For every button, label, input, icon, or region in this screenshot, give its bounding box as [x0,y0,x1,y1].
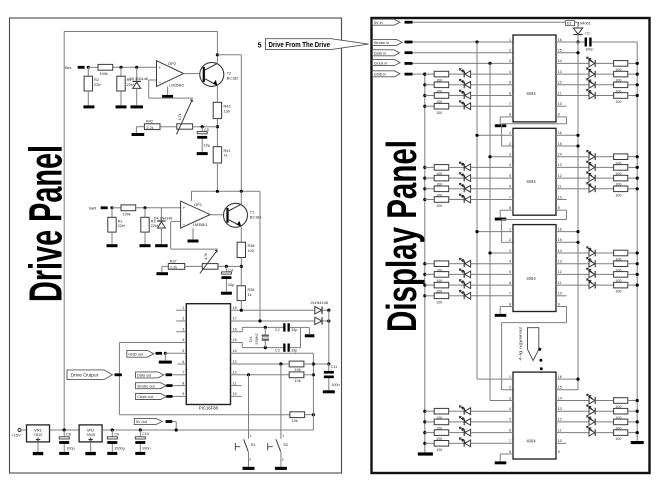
node T1 collector junction [240,190,243,193]
resistor 100 right bank4 row3 [614,419,628,425]
wire LED to U4 pin4 [471,410,513,412]
node rail junction bank4 row3 [636,420,639,423]
U1 pin 9 label [558,113,560,117]
LED right bank1 row4 [589,92,595,99]
svg-text:4,7k: 4,7k [204,253,208,260]
wire resistor to LED bank3 row2 [449,273,465,275]
wire +15V to VR1 [21,429,27,431]
wire +V left rail [63,32,65,431]
svg-text:3: 3 [509,249,511,253]
svg-text:4094: 4094 [526,439,536,444]
svg-text:18: 18 [233,306,237,310]
resistor 100 bank3 row4 [434,293,449,299]
svg-text:100: 100 [615,290,621,294]
wire Data out stub [166,373,173,376]
wire resistor to rail right bank2 row2 [628,166,637,168]
pin 8 label [182,381,184,385]
svg-text:22k*: 22k* [94,83,102,87]
svg-text:20MHZ: 20MHZ [255,333,259,344]
ground S2 [275,467,287,470]
ground C10 [135,452,145,455]
svg-text:1: 1 [509,38,511,42]
wire U1 pin8 to ground [500,116,513,118]
connector 5V in [372,19,400,25]
svg-text:7805: 7805 [86,432,95,437]
svg-text:4,7k: 4,7k [178,113,182,120]
svg-text:S2: S2 [283,442,288,447]
LED bank1 row1 [463,71,465,78]
node 10k 5V junction [312,413,315,416]
svg-text:6: 6 [509,91,511,95]
resistor 100 bank1 row2 [434,82,449,88]
wire feed to resistor bank1 row3 [425,95,434,97]
svg-text:100: 100 [615,100,621,104]
diode D4 1N4148 [160,208,162,221]
ground C8 [59,452,69,455]
wire T1 supply rail [192,190,261,192]
wire T2 collector drop [216,32,218,63]
svg-text:100: 100 [436,111,442,115]
crystal Cr1 20MHZ [264,326,267,329]
resistor 100 bank4 row3 [434,430,449,436]
ground right rail [631,441,644,444]
wire strobe to U2 pin1 [477,134,513,136]
svg-text:15: 15 [558,49,562,53]
LED bank4 row1 [463,408,465,415]
svg-text:1: 1 [250,434,252,438]
LED right bank4 row2 [589,408,595,415]
connector Clock in [372,60,400,66]
wire resistor to rail right bank3 row2 [628,263,637,265]
wire S2 to ground [280,452,282,467]
resistor 100 bank1 row3 [434,93,449,99]
svg-text:_: _ [182,220,186,225]
LED right bank1 row2 [589,71,595,78]
svg-text:4094: 4094 [526,276,536,281]
wire 5V bus [577,42,579,390]
node SaR junction [110,206,113,209]
ground R4 [116,105,127,108]
resistor R1 [111,208,113,218]
capacitor C9 1000u [111,430,113,437]
IC 4094 U1 [513,35,556,122]
svg-text:2,2k: 2,2k [146,126,153,130]
IC 4094 U3 [513,225,556,312]
svg-text:12: 12 [558,174,562,178]
wire resistor to rail right bank4 row4 [628,432,637,434]
U4 pin 13 label [558,407,562,411]
wire S1 to ground [248,452,250,467]
U1 pin 10 label [558,102,562,106]
node rail junction bank3 row2 [636,262,639,265]
node strobe junction U2 [475,134,478,137]
U3 pin 6 label [509,281,511,285]
wire feed to resistor bank2 row2 [425,177,434,179]
node S2 junction [279,362,282,365]
svg-text:1k: 1k [248,293,252,297]
U2 pin 7 label [509,195,511,199]
svg-text:7: 7 [509,195,511,199]
wire resistor to rail right bank2 row3 [628,177,637,179]
wire pin15 to crystal loop [231,342,243,344]
connector Strobe out [136,383,167,389]
trimmer P2 4,7k [177,124,193,129]
svg-text:10k: 10k [295,379,301,383]
wire U3 pin8 to ground [500,306,513,308]
U4 pin 11 label [558,428,562,432]
wire OP1 output to T1 base [210,214,227,216]
wire feed to resistor bank4 row3 [425,432,434,434]
LED right bank3 row2 [589,260,595,267]
svg-text:12: 12 [233,371,237,375]
wire 5V out stub [166,420,173,423]
svg-text:11: 11 [558,281,562,285]
wire U4 pin12 to LED [556,421,589,423]
svg-text:BC182: BC182 [250,215,262,219]
node rail junction bank2 row4 [636,187,639,190]
node rail junction bank4 row1 [636,399,639,402]
node R4 junction [119,66,122,69]
pin 7 label [182,371,184,375]
wire LED to U2 pin5 [471,177,513,179]
svg-text:+: + [183,206,186,211]
wire VR1 to ground [37,442,39,452]
U1 pin 11 label [558,91,562,95]
svg-text:C3: C3 [275,348,280,352]
wire U2 pin16 to 5V [556,134,578,136]
node C9 junction [111,428,114,431]
U3 pin 9 label [558,302,560,306]
pin 9 label [182,392,184,396]
U4 pin 9 label [558,450,560,454]
LED bank2 row2 [463,175,465,182]
svg-text:12: 12 [558,81,562,85]
wire led feed bus [424,74,426,452]
U4 pin 7 label [509,439,511,443]
drive panel border [10,18,342,473]
node C8 junction [63,428,66,431]
ground U3 [495,314,507,317]
ground R37 [162,265,168,267]
wire OP2 feedback [149,79,157,81]
node led feed top [423,73,426,76]
wire U4 pin8 to ground [500,453,513,455]
svg-text:13: 13 [558,70,562,74]
U4 pin 2 label [509,386,511,390]
wire U1 pin14 to LED [556,62,589,64]
node rail junction bank1 row1 [636,62,639,65]
svg-text:22k*: 22k* [127,83,135,87]
U3 pin 2 label [509,238,511,242]
svg-text:Display Panel: Display Panel [378,140,425,332]
resistor R35 [237,286,245,301]
node SaR input label [89,206,97,211]
svg-text:2x1N4148: 2x1N4148 [311,301,328,305]
LED bank2 row1 [463,164,465,171]
svg-text:5: 5 [509,174,511,178]
svg-text:C8: C8 [66,433,71,437]
wire LED to U1 pin4 [471,73,513,75]
node bank3 feed row1 [423,262,426,265]
wire R42 to trimmer [160,126,177,128]
node C11 junction [327,362,330,365]
wire trimmer to node [193,126,218,128]
wire to R36 [112,207,121,209]
ground R42 [136,126,144,128]
node bank3 feed row3 [423,284,426,287]
connector Clock out [136,394,167,400]
resistor 100 right bank1 row1 [614,61,628,67]
node clock junction U3 [488,251,491,254]
pin 17 label [233,317,237,321]
wire R41 to T1 rail [216,163,218,191]
wire OP2 output to T2 base [184,73,204,75]
pin 16 label [233,327,237,331]
resistor R38 [237,242,245,257]
resistor 100 right bank3 row2 [614,261,628,267]
U4 pin 4 label [509,407,511,411]
resistor 100 bank3 row3 [434,282,449,288]
svg-text:2: 2 [509,386,511,390]
wire 5V in stub [405,21,413,24]
wire crystal caps common [300,327,302,347]
ground GND out [164,353,166,360]
svg-text:22k*: 22k* [118,224,126,228]
svg-text:Strobe in: Strobe in [374,41,389,45]
wire LED to U3 pin5 [471,273,513,275]
ground C4 [221,292,232,295]
resistor R3 [144,208,146,218]
ground R2 [83,105,94,108]
capacitor C1 100n [585,31,590,35]
pin 12 label [233,371,237,375]
node bank2 feed row1 [423,166,426,169]
wire U3 pin16 to 5V [556,231,578,233]
LED right bank4 row3 [589,419,595,426]
node bank1 feed row3 [423,94,426,97]
ground OP2 [162,95,173,98]
svg-text:14: 14 [558,153,562,157]
connector 5 Drive From The Drive [258,41,262,50]
wire VR2 out 5V rail [102,429,313,431]
wire U4 pin15 to 5V [556,389,578,391]
resistor R43 [213,102,221,118]
node strobe junction U3 [475,230,478,233]
node bank4 feed row2 [423,420,426,423]
node 5V junction U3 pin15 [576,241,579,244]
wire LED to U4 pin5 [471,421,513,423]
ground OP1 [188,240,199,243]
node 5V out junction [175,428,178,431]
U3 pin 4 label [509,260,511,264]
LED right bank1 row1 [589,60,595,67]
LED bank4 row3 [463,429,465,436]
svg-text:C1: C1 [585,31,590,35]
node pin18 junction [240,309,243,312]
node rail junction bank3 row1 [636,251,639,254]
U2 pin 8 label [509,206,511,210]
U3 pin 5 label [509,270,511,274]
wire R4 to ground [120,91,122,105]
node bank1 feed row1 [423,73,426,76]
node strobe junction chip1 [475,40,478,43]
resistor 100k stage2 [121,205,136,211]
svg-text:C5: C5 [204,128,209,132]
node 5V rail top [576,40,579,43]
wire U1 pin15 to 5V [556,52,578,54]
wire U3 pin14 to LED [556,252,589,254]
svg-text:S1: S1 [251,442,256,447]
wire R1 to ground [111,232,113,244]
wire LED to U3 pin4 [471,263,513,265]
wire Clock out stub [166,395,172,398]
U1 pin 3 label [509,59,511,63]
wire LED to resistor right bank2 row2 [595,166,613,168]
pin 2 label [182,317,184,321]
svg-text:33p: 33p [291,348,297,352]
U2 pin 11 label [558,185,562,189]
connector Data in [372,50,399,56]
U1 pin 6 label [509,91,511,95]
svg-text:C4: C4 [228,269,233,273]
wire pin16 to crystal loop [231,331,243,333]
U1 pin 4 label [509,70,511,74]
U2 pin10 stub [556,199,567,201]
svg-text:100µ: 100µ [66,446,75,450]
wire feed to resistor bank2 row4 [425,199,434,201]
connector 5V out [134,418,162,424]
svg-text:C2: C2 [275,328,280,332]
svg-text:1: 1 [509,227,511,231]
node pin17 junction [258,319,261,322]
LED bank1 row3 [463,92,465,99]
U2 pin 13 label [558,163,562,167]
ground D4 [155,244,168,247]
svg-text:10: 10 [558,292,562,296]
U2 pin 4 label [509,163,511,167]
wire resistor to LED bank2 row1 [449,166,465,168]
resistor 100 bank2 row1 [434,165,449,171]
svg-text:4: 4 [182,338,184,342]
pin 11 stub [231,385,242,387]
wire Strobe in stub [405,41,413,44]
U1 pin 1 label [509,38,511,42]
node BeL input label [65,65,73,70]
wire GND in stub [405,73,413,76]
node trimmer junction stage2 [240,265,243,268]
wire LED to resistor right bank1 row2 [595,73,613,75]
node rail junction bank4 row2 [636,410,639,413]
U3 pin 3 label [509,249,511,253]
wire U3 QS to U4 data [556,306,567,308]
pin 4 label [182,338,184,342]
svg-text:C10: C10 [142,432,149,436]
U4 pin 6 label [509,428,511,432]
resistor 100 bank1 row1 [434,71,449,77]
wire feed to resistor bank4 row4 [425,442,434,444]
svg-text:8: 8 [182,381,184,385]
wire 5V in to D1 [413,21,579,23]
LED bank3 row3 [463,282,465,289]
U3 pin 11 label [558,281,562,285]
svg-text:R38: R38 [248,244,255,248]
svg-text:Strobe out: Strobe out [137,384,155,388]
node bank3 feed row4 [423,294,426,297]
node C4 junction [225,265,228,268]
svg-text:100: 100 [436,300,442,304]
regulator VR1 7812 [27,425,50,442]
resistor R37 2,2k [168,264,184,270]
wire LED to U3 pin6 [471,284,513,286]
svg-text:3: 3 [509,153,511,157]
wire resistor to LED bank1 row1 [449,73,465,75]
wire pin18 to diodes [231,309,315,311]
wire resistor to LED bank3 row4 [449,295,465,297]
U3 pin 8 label [509,302,511,306]
svg-text:Data in: Data in [374,52,386,56]
svg-text:Drive From The Drive: Drive From The Drive [269,40,331,49]
LED right bank3 row4 [589,282,595,289]
LED right bank3 row3 [589,271,595,278]
pin 3 label [182,327,184,331]
resistor 10k pin12 pullup [289,372,304,378]
svg-text:100n: 100n [142,446,150,450]
U4 pin 5 label [509,418,511,422]
U2 pin 3 label [509,153,511,157]
wire R38 to node [240,258,242,286]
resistor 100 right bank2 row1 [614,154,628,160]
wire feed to resistor bank3 row3 [425,284,434,286]
wire resistor to LED bank4 row4 [449,442,465,444]
ground D5 [130,105,143,108]
svg-text:5: 5 [182,349,184,353]
wire resistor to LED bank4 row3 [449,432,465,434]
svg-text:LM358/1: LM358/1 [193,223,208,227]
svg-text:12: 12 [558,270,562,274]
wire feed to resistor bank1 row1 [425,73,434,75]
svg-text:5: 5 [509,81,511,85]
LED right bank3 row1 [589,250,595,257]
svg-text:7812: 7812 [34,432,43,437]
svg-text:10µ: 10µ [204,143,211,147]
svg-text:2: 2 [509,142,511,146]
svg-text:2: 2 [509,49,511,53]
svg-text:14: 14 [558,249,562,253]
LED bank1 row2 [463,81,465,88]
svg-text:2: 2 [249,457,251,461]
wire resistor to LED bank3 row1 [449,263,465,265]
svg-text:OP2: OP2 [168,61,177,66]
pin 6 label [182,360,184,364]
wire feed to resistor bank2 row1 [425,166,434,168]
node bank2 feed row3 [423,187,426,190]
regulator VR2 7805 [79,425,102,442]
wire Strobe in to pin1 [413,41,514,43]
svg-text:16: 16 [558,375,562,379]
svg-text:8: 8 [509,113,511,117]
wire U4 pin11 to LED [556,432,589,434]
pin 10 stub [231,395,242,397]
pin 13 label [233,360,237,364]
svg-text:15: 15 [558,238,562,242]
wire resistor to LED bank2 row2 [449,177,465,179]
connector Strobe in [372,39,402,45]
wire resistor to LED bank4 row2 [449,421,465,423]
node 5V junction U3 pin16 [576,230,579,233]
wire Clock in stub [405,62,413,65]
svg-text:16: 16 [558,131,562,135]
svg-text:14: 14 [558,396,562,400]
